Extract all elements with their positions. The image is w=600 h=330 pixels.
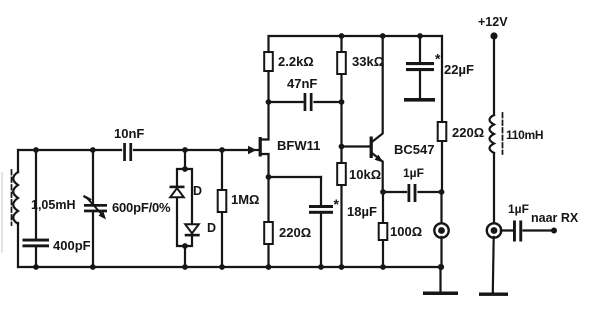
junction dot Q1 source node: [266, 174, 272, 180]
value label 47nF: [287, 76, 317, 91]
svg-text:400pF: 400pF: [53, 238, 91, 253]
svg-text:10kΩ: 10kΩ: [349, 167, 381, 182]
wire: source node to 18uF and R3: [269, 177, 322, 267]
terminal naar RX: [531, 211, 579, 234]
value label 1M ohm: [231, 192, 259, 207]
svg-text:D: D: [193, 184, 202, 198]
wire: Q2 collector lead: [373, 36, 383, 142]
svg-text:18µF: 18µF: [347, 204, 377, 219]
ground bar at J2: [479, 293, 508, 296]
value label 2.2k ohm: [278, 54, 314, 69]
coax connector J1: [434, 223, 448, 237]
diode D2 (cathode down): [185, 224, 200, 236]
svg-text:BC547: BC547: [394, 142, 434, 157]
wire: J2 to 1uF RX coupling: [501, 229, 554, 231]
emitter arrow of Q2: [375, 155, 384, 163]
value label 220 ohm (R7): [452, 125, 484, 140]
value label 110mH: [506, 128, 543, 142]
value label 1,05mH: [31, 198, 75, 212]
svg-text:D: D: [207, 221, 216, 235]
svg-text:*: *: [334, 196, 340, 212]
svg-text:100Ω: 100Ω: [390, 224, 422, 239]
polarity mark of C7: [435, 51, 441, 67]
gate arrow of Q1: [248, 146, 259, 154]
resistor R7 220 ohm feed: [438, 122, 447, 141]
value label 600pF/0%: [112, 200, 171, 215]
wire: trimmer branch: [92, 150, 94, 267]
ground bar at J1: [423, 292, 458, 296]
svg-text:110mH: 110mH: [506, 128, 543, 142]
transistor Q2 BC547 base bar: [370, 137, 373, 159]
inductor L2 110mH: [490, 115, 495, 153]
svg-text:1µF: 1µF: [508, 202, 529, 216]
capacitor C1 400pF: [23, 239, 50, 248]
resistor R5 10k: [337, 163, 346, 185]
core of L2 (dashed): [502, 113, 504, 154]
wire: Q2 emitter lead: [373, 154, 383, 193]
value label 10nF: [114, 126, 144, 141]
capacitor C7 22uF electrolytic: [406, 62, 434, 71]
value label 220 ohm: [279, 225, 311, 240]
label BC547: [394, 142, 434, 157]
svg-text:220Ω: 220Ω: [452, 125, 484, 140]
svg-text:600pF/0%: 600pF/0%: [112, 200, 171, 215]
wire: top-left rail (tuned circuit / gate net): [18, 149, 248, 151]
svg-text:2.2kΩ: 2.2kΩ: [278, 54, 314, 69]
ground bar of C7: [404, 98, 435, 102]
wire: bottom ground rail: [18, 266, 442, 268]
value label 18uF: [347, 204, 377, 219]
resistor R6 100 ohm: [379, 223, 388, 240]
core of L1 (dashed): [11, 170, 13, 225]
label D (D2): [207, 221, 216, 235]
wire: 22uF decoupling branch: [419, 36, 421, 98]
trimmer capacitor C2 600pF: [84, 197, 107, 220]
wire: left vertical branch with L1: [17, 150, 19, 267]
value label 22uF: [444, 62, 474, 77]
wire: 47nF coupling run: [269, 101, 342, 103]
wire: 1M ohm branch: [221, 150, 223, 267]
resistor R1 1M ohm: [218, 190, 227, 212]
junction dot Q2 base node: [339, 144, 345, 150]
svg-text:22µF: 22µF: [444, 62, 474, 77]
inductor L1 1,05mH: [13, 172, 18, 224]
label BFW11: [277, 138, 320, 153]
capacitor C4 47nF: [304, 93, 313, 111]
wire: L2 down to connector J2: [493, 153, 495, 223]
capacitor C3 10nF (series in rail): [123, 143, 132, 161]
wire: emitter node to 100R and 1uF: [383, 192, 441, 267]
wire: Q1 drain lead up to R2: [261, 71, 269, 140]
wire: diode clipper branch stem and loop: [177, 150, 192, 267]
wire: base lead of Q2: [342, 145, 371, 147]
wire: J1 shell to ground: [439, 267, 441, 292]
svg-text:1,05mH: 1,05mH: [31, 198, 75, 212]
svg-text:1µF: 1µF: [403, 166, 424, 180]
junction dots top-left rail: [33, 147, 225, 153]
junction dots emitter output net: [380, 189, 444, 195]
+12V terminal: [478, 15, 508, 40]
resistor R4 33k: [337, 52, 346, 74]
wire: J2 shell to ground: [492, 237, 495, 293]
svg-text:47nF: 47nF: [287, 76, 317, 91]
value label 1uF (C6): [403, 166, 424, 180]
junction dots drain / 47nF net: [266, 99, 345, 105]
capacitor C8 1uF to RX: [513, 221, 522, 242]
value label 100 ohm: [390, 224, 422, 239]
resistor R2 2.2k drain load: [264, 52, 273, 71]
wire: 400pF branch: [35, 150, 37, 267]
svg-text:10nF: 10nF: [114, 126, 144, 141]
wire: 18uF branch: [320, 177, 322, 267]
svg-text:BFW11: BFW11: [277, 138, 320, 153]
junction dots supply rail: [339, 33, 423, 39]
wire: Q1 source lead down: [261, 154, 269, 177]
svg-text:+12V: +12V: [478, 15, 508, 29]
diode D1 (cathode up): [170, 186, 185, 198]
junction dots bottom rail: [33, 264, 444, 270]
capacitor C6 1uF output coupling: [408, 184, 417, 202]
label D (D1): [193, 184, 202, 198]
value label 400pF: [53, 238, 91, 253]
svg-text:1MΩ: 1MΩ: [231, 192, 259, 207]
svg-text:220Ω: 220Ω: [279, 225, 311, 240]
wire: 33k / base divider branch: [340, 36, 342, 267]
wire: 220R feed branch: [440, 36, 443, 267]
value label 33k ohm: [352, 54, 384, 69]
transistor Q1 BFW11 (JFET) channel bar: [259, 137, 262, 157]
capacitor C5 18uF electrolytic: [309, 205, 333, 214]
junction dots diode loop: [182, 166, 188, 249]
svg-text:*: *: [435, 51, 441, 67]
coax connector J2: [487, 223, 501, 237]
resistor R3 220 ohm source: [264, 222, 273, 244]
value label 10k ohm: [349, 167, 381, 182]
scan edge artifact: [1, 173, 3, 252]
svg-text:33kΩ: 33kΩ: [352, 54, 384, 69]
svg-text:naar RX: naar RX: [531, 211, 579, 225]
polarity mark of C5: [334, 196, 340, 212]
wire: top-right supply rail: [269, 36, 443, 52]
wire: +12V down to L2: [493, 36, 495, 115]
value label 1uF (C8): [508, 202, 529, 216]
